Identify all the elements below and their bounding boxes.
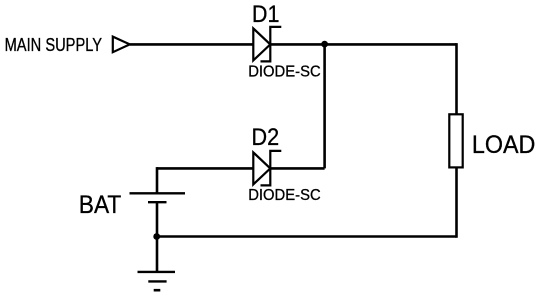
wire: [270, 167, 324, 170]
svg-text:MAIN SUPPLY: MAIN SUPPLY: [5, 34, 103, 55]
wire: [455, 43, 458, 113]
svg-text:DIODE-SC: DIODE-SC: [248, 187, 321, 204]
wire: [156, 167, 159, 193]
junction node B: [153, 233, 160, 240]
battery BAT: [130, 193, 186, 202]
svg-text:D2: D2: [252, 125, 280, 151]
svg-text:LOAD: LOAD: [472, 132, 536, 159]
wire: [130, 43, 254, 46]
resistor LOAD: [449, 114, 462, 167]
wire: [455, 168, 458, 238]
svg-text:BAT: BAT: [79, 192, 122, 219]
input port MAIN SUPPLY: [113, 37, 130, 53]
svg-text:D1: D1: [252, 2, 280, 28]
wire: [156, 202, 159, 272]
junction node A: [321, 41, 328, 48]
wire: [157, 235, 457, 238]
diode D2: [253, 151, 281, 186]
wire: [157, 167, 253, 170]
wire: [270, 43, 456, 46]
wire: [323, 44, 326, 168]
svg-text:DIODE-SC: DIODE-SC: [248, 64, 321, 81]
diode D1: [253, 27, 281, 62]
ground: [138, 272, 176, 290]
